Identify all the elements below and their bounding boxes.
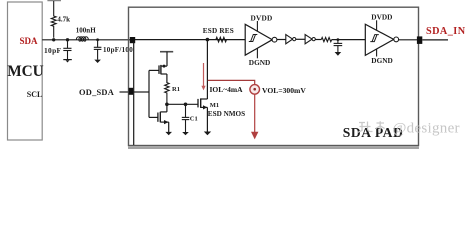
VOL arrow to ground (red): [251, 94, 258, 139]
inverter A: [286, 35, 296, 44]
svg-text:@designer: @designer: [393, 121, 460, 137]
schmitt trigger U1: [245, 24, 277, 55]
svg-text:VOL=300mV: VOL=300mV: [262, 86, 306, 95]
transistor NMOS (pre-driver): [149, 104, 169, 132]
U2 DGND stub: [376, 49, 378, 57]
capacitor C 10pF (first): [63, 40, 71, 60]
junction dot M1 drain / main wire: [206, 38, 210, 42]
svg-text:100nH: 100nH: [76, 27, 96, 35]
wire inverter B to RC: [315, 39, 321, 41]
junction dot C (cap2 / wire): [96, 38, 99, 41]
U2 DVDD stub: [376, 20, 378, 30]
svg-text:SCL: SCL: [27, 90, 43, 99]
svg-text:DGND: DGND: [249, 58, 270, 67]
node dot (R1 / NMOS drain / gate wire): [165, 103, 169, 107]
wire inverter A to B: [296, 38, 305, 40]
ground (RC cap): [335, 52, 342, 56]
U1 DGND stub: [256, 48, 258, 58]
svg-text:M1: M1: [210, 102, 219, 109]
svg-text:DVDD: DVDD: [251, 14, 273, 23]
svg-text:IOL~4mA: IOL~4mA: [210, 85, 244, 94]
resistor (RC filter): [321, 38, 331, 42]
watermark zhihu glyphs: [358, 121, 385, 132]
wire gate vertical: [148, 70, 150, 117]
pad stem wire (port to box bottom): [133, 42, 135, 145]
svg-text:SDA: SDA: [20, 36, 39, 46]
resistor 4.7k pull-up: [51, 13, 56, 38]
schmitt trigger U2: [365, 24, 398, 55]
svg-text:SDA_IN: SDA_IN: [426, 26, 466, 37]
voltmeter probe circle (red): [250, 85, 260, 95]
DVDD rail T-bar (pre-driver): [160, 52, 173, 66]
junction dot (RC cap): [337, 38, 340, 41]
wire U1 to inverter A: [277, 39, 286, 41]
SDA PAD box: [129, 7, 419, 145]
wire OD_SDA to gates: [133, 91, 149, 93]
wire SDA_IN stub out: [422, 39, 448, 41]
transistor M1 ESD NMOS: [198, 40, 207, 132]
resistor R1: [165, 83, 169, 105]
VOL measure wire (red): [208, 80, 255, 84]
IOL current arrow (red): [201, 63, 205, 90]
ground (cap2): [94, 60, 101, 63]
ground (M1): [204, 132, 211, 136]
main internal wire: [135, 39, 245, 41]
svg-text:ESD NMOS: ESD NMOS: [208, 110, 245, 118]
transistor PMOS (pre-driver): [149, 65, 167, 83]
svg-text:OD_SDA: OD_SDA: [79, 88, 114, 97]
capacitor (RC filter): [334, 40, 343, 52]
svg-text:C1: C1: [190, 115, 198, 122]
svg-text:10pF: 10pF: [44, 46, 62, 55]
capacitor C1: [182, 104, 190, 132]
SDA port square: [130, 37, 135, 43]
junction dot (C1 / gate wire): [184, 103, 188, 107]
svg-text:DVDD: DVDD: [371, 13, 392, 22]
svg-text:DGND: DGND: [371, 56, 393, 65]
inverter B: [305, 35, 315, 44]
wire U2 to SDA_IN port: [399, 39, 417, 41]
box bottom shadow strip: [128, 146, 419, 149]
wire MCU SDA to pad: [42, 39, 130, 41]
ground (C1): [182, 132, 189, 135]
svg-text:MCU: MCU: [7, 63, 44, 80]
svg-text:4.7k: 4.7k: [57, 15, 70, 23]
svg-text:ESD RES: ESD RES: [203, 27, 234, 35]
VDD rail T-bar (pull-up supply): [47, 1, 61, 13]
resistor ESD RES: [216, 37, 227, 42]
svg-text:R1: R1: [172, 86, 180, 93]
capacitor 10pF/100 (second): [94, 40, 102, 60]
ground (cap1): [63, 60, 72, 63]
MCU box: [8, 2, 43, 140]
inductor 100nH: [76, 37, 88, 42]
U1 DVDD stub: [256, 21, 258, 31]
junction dot A (pull-up / wire): [52, 38, 55, 41]
SDA_IN port square: [417, 36, 422, 44]
ground (pre-driver NMOS): [165, 132, 172, 135]
junction dot B (cap1 / wire): [66, 38, 69, 41]
wire OD_SDA stub: [120, 91, 132, 93]
OD_SDA port square: [129, 88, 134, 95]
wire node to M1 gate: [167, 103, 198, 105]
wire RC node: [332, 39, 366, 41]
